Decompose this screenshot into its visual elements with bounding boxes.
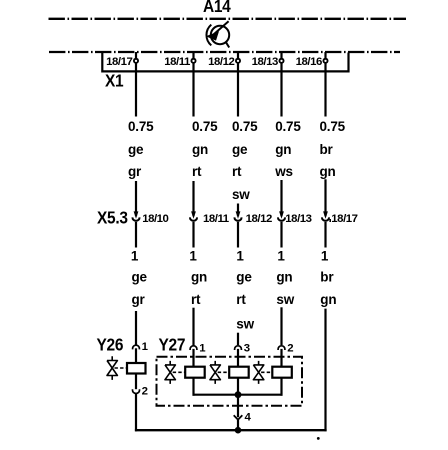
svg-text:1: 1 xyxy=(321,249,329,264)
svg-text:Y26: Y26 xyxy=(97,335,124,355)
wire segment below X5.3 pin 3 xyxy=(237,222,239,248)
Y27 pin 4 socket xyxy=(234,415,243,419)
wire segment above Y2x pin (wire 2) xyxy=(192,308,194,347)
connector X1 bracket xyxy=(102,53,348,72)
wire from A14 through X1 pin 18/17 xyxy=(135,52,137,117)
svg-text:0.75: 0.75 xyxy=(320,119,346,134)
svg-text:sw: sw xyxy=(276,292,294,307)
A14 symbol diagonal lead top-right xyxy=(214,21,229,34)
svg-text:gn: gn xyxy=(276,270,292,285)
Y26 wire pin2 to ground bus xyxy=(135,393,137,431)
A14 symbol arrowhead xyxy=(206,31,219,40)
X1 pin socket 18/17 xyxy=(133,58,139,64)
Y27 wire pin 1 to coil xyxy=(192,349,194,367)
svg-text:gn: gn xyxy=(320,164,336,179)
svg-text:18/10: 18/10 xyxy=(142,213,168,225)
svg-text:gn: gn xyxy=(275,142,291,157)
svg-text:br: br xyxy=(320,270,334,285)
X5.3 pin 18/12 plug arrow xyxy=(236,211,241,218)
A14 symbol diagonal lead bottom-right xyxy=(226,42,229,47)
X5.3 pin 18/12 socket cup xyxy=(235,217,242,220)
ground bus junction xyxy=(235,427,242,434)
A14 symbol outer left arc xyxy=(206,25,211,46)
Y27 valve 3 dashed link xyxy=(261,371,272,373)
Y26 valve symbol xyxy=(107,356,117,380)
Y27 solenoid coil 1 xyxy=(185,367,205,378)
svg-text:sw: sw xyxy=(236,317,254,332)
wire segment below X5.3 pin 4 xyxy=(280,222,282,248)
svg-text:1: 1 xyxy=(199,343,206,355)
A14 component symbol circle xyxy=(211,26,229,44)
Y27 pin 2 socket xyxy=(278,346,285,350)
wire segment above X5.3 pin 1 xyxy=(135,181,137,216)
Y27 solenoid coil 2 xyxy=(229,367,249,378)
svg-text:0.75: 0.75 xyxy=(275,119,301,134)
Y27 internal bus xyxy=(193,394,283,396)
svg-text:0.75: 0.75 xyxy=(128,119,154,134)
wire segment below X5.3 pin 5 xyxy=(324,222,326,248)
svg-text:18/17: 18/17 xyxy=(331,213,357,225)
Y27 wire junction to pin 4 xyxy=(237,395,239,418)
wire segment above X5.3 pin 5 xyxy=(324,179,326,216)
X1 pin socket 18/16 xyxy=(323,58,329,64)
wire segment below X5.3 pin 1 xyxy=(135,222,137,248)
stray mark near 18/17 xyxy=(329,219,331,222)
svg-text:gn: gn xyxy=(191,270,207,285)
Y27 dash-dot enclosure xyxy=(157,357,303,406)
Y27 wire coil 1 to internal bus xyxy=(192,378,194,396)
Y27 wire coil 3 to internal bus xyxy=(280,378,282,396)
X1 pin socket 18/12 xyxy=(235,58,241,64)
svg-text:gn: gn xyxy=(320,292,336,307)
svg-text:ge: ge xyxy=(132,270,148,285)
svg-text:br: br xyxy=(320,142,334,157)
svg-text:1: 1 xyxy=(236,249,244,264)
svg-text:1: 1 xyxy=(189,249,197,264)
wire segment above Y2x pin (wire 4) xyxy=(280,307,282,345)
Y27 wire pin 2 to coil xyxy=(280,349,282,367)
svg-text:18/17: 18/17 xyxy=(106,56,132,68)
control unit A14 boundary line top xyxy=(49,18,407,20)
ground bus wire xyxy=(135,429,327,431)
Y26 wire pin1 to coil xyxy=(135,348,137,363)
wire segment below X5.3 pin 2 xyxy=(192,222,194,248)
svg-text:rt: rt xyxy=(192,164,202,179)
wire segment above Y2x pin (wire 1) xyxy=(135,311,137,346)
svg-text:X5.3: X5.3 xyxy=(97,208,128,228)
svg-text:ge: ge xyxy=(128,142,144,157)
X5.3 pin 18/11 socket cup xyxy=(190,217,197,220)
svg-text:18/12: 18/12 xyxy=(246,213,272,225)
stray speck xyxy=(317,437,320,440)
Y27 wire coil 2 to internal bus xyxy=(237,378,239,396)
svg-text:18/13: 18/13 xyxy=(285,213,311,225)
svg-text:rt: rt xyxy=(191,292,201,307)
svg-text:gn: gn xyxy=(192,142,208,157)
svg-text:1: 1 xyxy=(142,341,149,353)
Y26 pin 1 socket xyxy=(133,345,140,349)
wire segment above X5.3 pin 2 xyxy=(192,181,194,216)
svg-text:A14: A14 xyxy=(203,0,232,16)
X5.3 pin 18/10 plug arrow xyxy=(134,211,139,218)
svg-text:gr: gr xyxy=(128,164,142,179)
Y26 solenoid coil xyxy=(127,363,146,374)
Y26 valve-coil dashed link xyxy=(115,367,128,369)
svg-text:18/11: 18/11 xyxy=(203,213,230,225)
X5.3 pin 18/11 plug arrow xyxy=(191,211,196,218)
X5.3 pin 18/10 socket cup xyxy=(133,217,140,220)
svg-text:2: 2 xyxy=(287,343,293,355)
svg-text:sw: sw xyxy=(232,187,250,202)
Y27 solenoid coil 3 xyxy=(272,367,292,378)
svg-text:1: 1 xyxy=(131,249,139,264)
Y27 valve 1 dashed link xyxy=(173,371,186,373)
X1 pin socket 18/13 xyxy=(279,58,285,64)
Y26 wire coil to pin 2 xyxy=(135,374,137,390)
svg-text:ge: ge xyxy=(236,270,252,285)
control unit A14 boundary line bottom xyxy=(49,51,400,53)
wire segment above Y2x pin (wire 3) xyxy=(237,333,239,345)
svg-text:Y27: Y27 xyxy=(159,335,186,355)
wire segment above X5.3 pin 4 xyxy=(280,180,282,216)
svg-text:0.75: 0.75 xyxy=(232,119,258,134)
Y27 valve 2 symbol xyxy=(210,361,220,384)
Y26 pin 2 socket xyxy=(133,389,140,393)
svg-text:4: 4 xyxy=(245,412,252,424)
Y27 pin 3 socket xyxy=(235,346,242,350)
svg-text:3: 3 xyxy=(244,343,250,355)
X5.3 pin 18/13 plug arrow xyxy=(279,211,284,218)
wire from A14 through X1 pin 18/13 xyxy=(280,52,282,117)
wire from A14 through X1 pin 18/16 xyxy=(324,52,326,117)
X1 pin socket 18/11 xyxy=(191,58,197,64)
svg-text:18/12: 18/12 xyxy=(208,56,234,68)
svg-text:gr: gr xyxy=(132,292,146,307)
svg-text:ge: ge xyxy=(232,142,248,157)
Y27 wire pin 3 to coil xyxy=(237,349,239,367)
Y27 internal junction xyxy=(235,391,242,398)
wire from A14 through X1 pin 18/12 xyxy=(237,52,239,117)
X5.3 pin 18/17 plug arrow xyxy=(323,211,328,218)
svg-text:ws: ws xyxy=(274,164,293,179)
svg-text:18/13: 18/13 xyxy=(252,56,278,68)
svg-text:2: 2 xyxy=(142,386,148,398)
svg-text:X1: X1 xyxy=(105,71,123,91)
Y27 pin 1 socket xyxy=(190,346,197,350)
Y27 wire pin 4 to ground bus xyxy=(237,420,239,430)
Y27 valve 2 dashed link xyxy=(218,371,230,373)
X5.3 pin 18/13 socket cup xyxy=(278,217,285,220)
svg-text:18/16: 18/16 xyxy=(296,56,322,68)
svg-text:rt: rt xyxy=(232,164,242,179)
svg-text:0.75: 0.75 xyxy=(192,119,218,134)
wire 5 br/gn down right side to ground bus xyxy=(324,309,326,432)
svg-text:18/11: 18/11 xyxy=(164,56,191,68)
svg-text:1: 1 xyxy=(277,249,285,264)
svg-text:rt: rt xyxy=(236,292,246,307)
wire segment above X5.3 pin 3 xyxy=(237,204,239,217)
wire from A14 through X1 pin 18/11 xyxy=(192,52,194,117)
X5.3 pin 18/17 socket cup xyxy=(322,217,329,220)
Y27 valve 3 symbol xyxy=(253,361,263,384)
Y27 valve 1 symbol xyxy=(165,361,175,384)
